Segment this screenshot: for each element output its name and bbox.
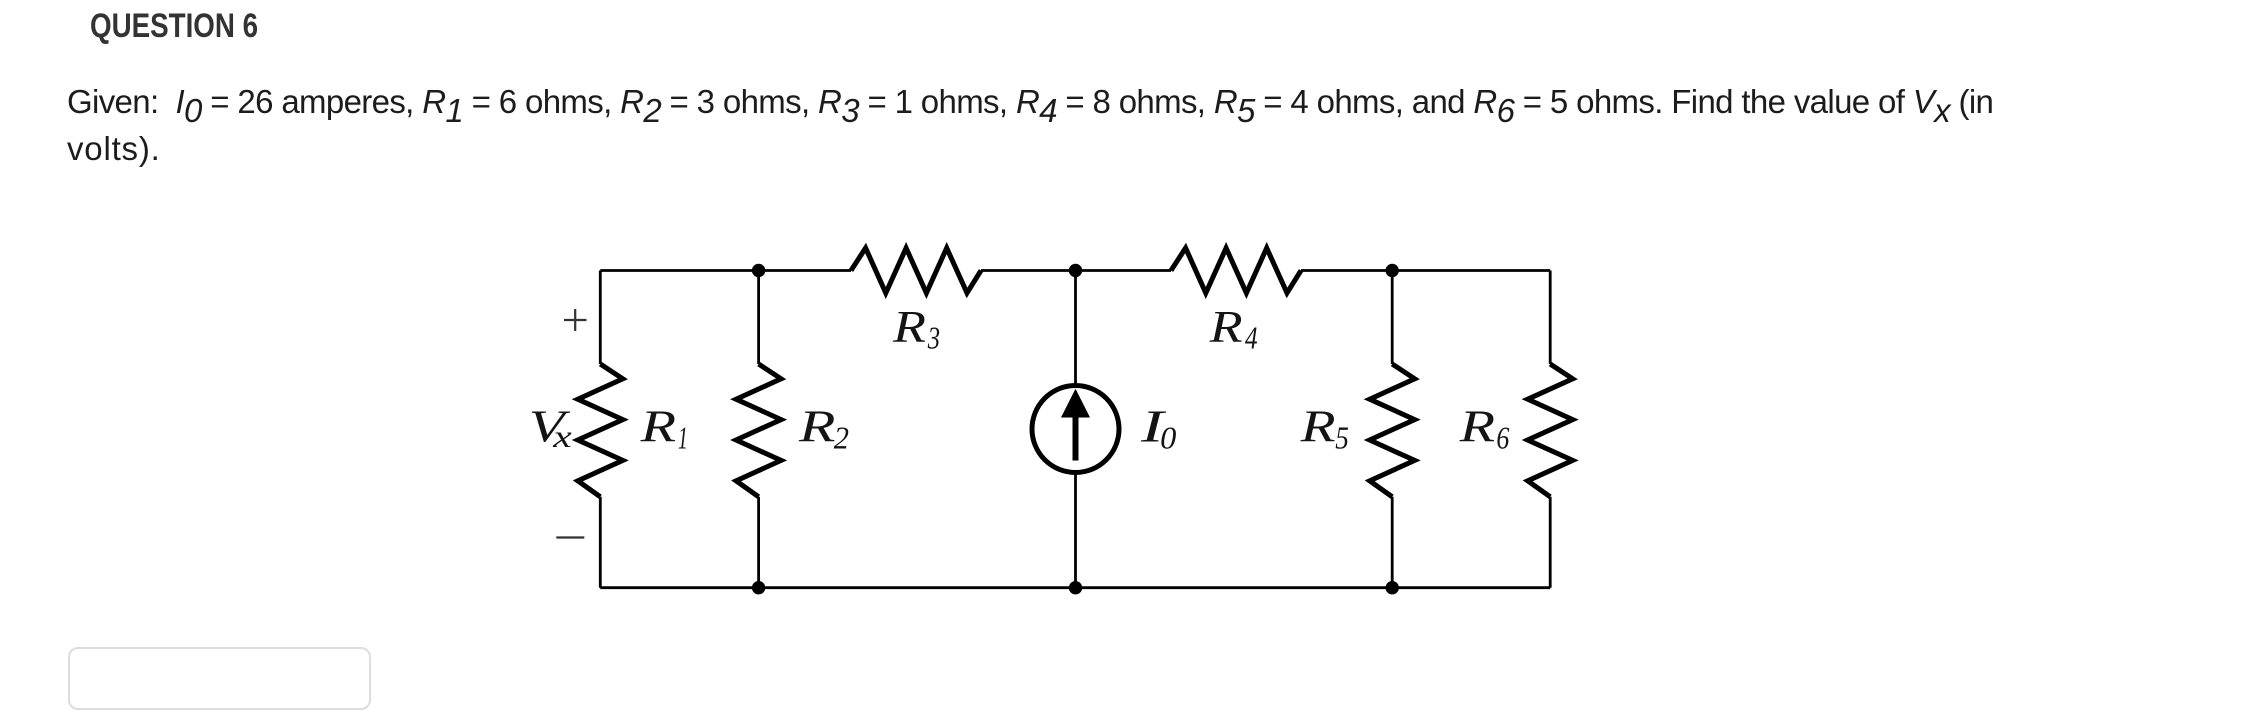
wire top rail left segment	[600, 269, 851, 272]
wire R5 branch upper	[1391, 271, 1394, 365]
node top I0 junction	[1069, 264, 1082, 277]
svg-text:2: 2	[834, 419, 849, 455]
wire bottom rail	[600, 586, 1550, 589]
svg-text:5: 5	[1335, 419, 1349, 455]
wire R2 branch lower	[757, 497, 760, 588]
wire left branch lower	[599, 497, 602, 588]
resistor R3	[851, 248, 981, 293]
node bottom R2 junction	[752, 581, 765, 594]
resistor R6	[1528, 364, 1573, 497]
wire left branch upper	[599, 271, 602, 365]
svg-text:R: R	[639, 400, 676, 451]
svg-text:4: 4	[1245, 319, 1258, 355]
current source I0 arrow	[1073, 414, 1079, 461]
wire R2 branch upper	[757, 271, 760, 365]
wire top rail right segment	[1301, 269, 1550, 272]
svg-text:R: R	[892, 301, 926, 352]
wire R6 branch lower	[1549, 497, 1552, 588]
wire current-source branch upper	[1074, 271, 1077, 386]
current source I0 circle	[1032, 386, 1119, 473]
resistor R4	[1171, 248, 1301, 293]
wire top rail middle segment	[981, 269, 1171, 272]
answer input box	[68, 647, 371, 710]
problem statement paragraph	[67, 78, 2217, 172]
wire R6 branch upper	[1549, 271, 1552, 365]
svg-text:3: 3	[927, 319, 940, 355]
svg-text:0: 0	[1160, 419, 1176, 455]
svg-text:R: R	[798, 400, 836, 451]
wire R5 branch lower	[1391, 497, 1394, 588]
svg-text:R: R	[1208, 301, 1242, 352]
svg-text:R: R	[1458, 400, 1495, 451]
node bottom I0 junction	[1069, 581, 1082, 594]
resistor R1	[578, 364, 623, 497]
svg-text:x: x	[552, 418, 572, 454]
heading QUESTION 6	[90, 9, 258, 43]
plus polarity mark	[564, 309, 587, 331]
svg-text:1: 1	[678, 419, 688, 455]
resistor R5	[1370, 364, 1415, 497]
minus polarity mark	[556, 536, 584, 538]
wire current-source branch lower	[1074, 473, 1077, 588]
node bottom R5 junction	[1386, 581, 1399, 594]
node top R2 junction	[752, 264, 765, 277]
svg-text:6: 6	[1496, 419, 1509, 455]
svg-text:R: R	[1299, 400, 1335, 451]
resistor R2	[736, 364, 781, 497]
node top R5 junction	[1386, 264, 1399, 277]
